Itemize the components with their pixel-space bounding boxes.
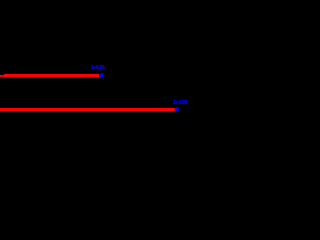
svg-text:1+0.81: 1+0.81 [173,100,188,106]
wire: red line 2 [0,108,175,111]
node A marker [100,73,104,77]
wire: red line 1 [0,75,99,77]
node B marker [175,107,179,111]
svg-text:1+0.51: 1+0.51 [91,65,105,71]
